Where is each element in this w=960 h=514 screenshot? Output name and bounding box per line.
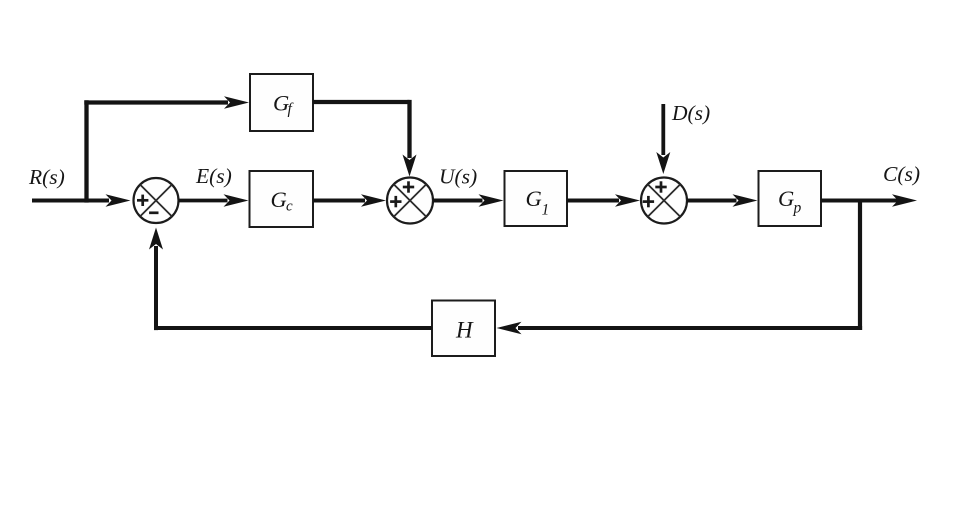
svg-text:C(s): C(s): [883, 162, 920, 186]
plus sign at S2 top input: [403, 181, 414, 192]
summing junction S1: [134, 178, 179, 223]
wire S2 to G1: [433, 194, 504, 206]
svg-text:D(s): D(s): [671, 101, 710, 125]
wire G1 to summing junction S3: [567, 194, 640, 206]
plus sign at S3 left input: [643, 196, 654, 207]
wire takeoff branch down from output: [858, 201, 862, 331]
svg-text:1: 1: [542, 202, 550, 219]
block Gp: [759, 171, 822, 226]
wire S3 to Gp: [687, 194, 758, 206]
wire D(s) down into S3: [656, 104, 670, 174]
svg-text:E(s): E(s): [195, 164, 232, 188]
svg-text:R(s): R(s): [28, 165, 65, 189]
wire Gf output to summing junction S2: [313, 100, 417, 177]
wire S1 to Gc: [179, 194, 249, 206]
wire Gc to summing junction S2: [313, 194, 386, 206]
wire input R(s) to summing junction S1: [32, 194, 131, 206]
svg-text:H: H: [455, 318, 474, 343]
node D(s) disturbance label: [671, 101, 710, 125]
svg-text:G: G: [271, 187, 287, 212]
wire Gp to output C(s): [821, 194, 917, 206]
svg-text:c: c: [286, 199, 293, 215]
block Gf: [250, 74, 313, 131]
summing junction S2: [387, 178, 433, 224]
node C(s) output label: [883, 162, 920, 186]
svg-text:G: G: [778, 186, 794, 211]
plus sign at S1 left input: [137, 195, 148, 206]
wire branch vertical from input up to feedforward path: [84, 100, 88, 202]
svg-text:p: p: [793, 200, 802, 217]
svg-text:U(s): U(s): [439, 165, 477, 189]
block G1: [505, 171, 568, 226]
block Gc: [250, 171, 314, 227]
block H: [432, 301, 495, 357]
wire feedback right segment into H: [497, 322, 863, 334]
node R(s) input label: [28, 165, 65, 189]
plus sign at S2 left input: [390, 196, 401, 207]
plus sign at S3 top input: [655, 181, 666, 192]
svg-text:G: G: [526, 186, 542, 211]
wire H output left and up to S1: [149, 228, 432, 331]
node U(s) label: [439, 165, 477, 189]
summing junction S3: [641, 178, 687, 224]
minus sign at S1 bottom input: [149, 211, 158, 214]
node E(s) label: [195, 164, 232, 188]
wire feedforward horizontal into Gf: [84, 96, 249, 108]
